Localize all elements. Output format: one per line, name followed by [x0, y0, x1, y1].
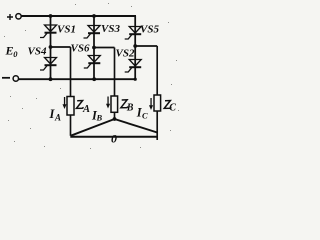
- node top rail / VS1: [49, 14, 53, 18]
- arrow current IC: [149, 98, 153, 110]
- svg-text:VS1: VS1: [57, 24, 76, 36]
- svg-text:C: C: [142, 111, 148, 121]
- svg-text:E: E: [5, 44, 14, 58]
- svg-text:0: 0: [111, 132, 117, 146]
- label zB: [121, 100, 128, 108]
- wire bottom rail: [19, 78, 136, 80]
- node VS2 bottom rail: [134, 78, 137, 81]
- node VS6 bottom rail: [92, 77, 96, 81]
- wire branch A down: [70, 47, 72, 97]
- svg-text:A: A: [82, 104, 90, 115]
- node top rail / VS3: [92, 14, 96, 18]
- arrow current IB: [106, 97, 110, 109]
- node neutral apex: [113, 117, 117, 121]
- load impedance zC: [154, 95, 161, 111]
- svg-text:VS2: VS2: [116, 48, 135, 60]
- load impedance zA: [67, 97, 74, 116]
- svg-text:A: A: [54, 113, 61, 123]
- wire column3 phase C leg: [134, 16, 136, 79]
- wire below zC: [156, 111, 158, 140]
- wire neutral right slant: [115, 119, 158, 133]
- thyristor VS4: [40, 58, 57, 71]
- load impedance zB: [111, 96, 118, 112]
- svg-text:B: B: [126, 103, 134, 114]
- svg-text:VS6: VS6: [71, 43, 90, 55]
- wire top rail: [21, 15, 136, 17]
- wire node B to branch B: [94, 47, 115, 49]
- noise speckles: [4, 3, 179, 149]
- svg-text:0: 0: [13, 49, 18, 59]
- terminal circle negative: [13, 76, 18, 81]
- arrow current IA: [63, 97, 67, 109]
- svg-text:VS5: VS5: [140, 24, 159, 36]
- node B: [92, 46, 96, 50]
- plus sign of source E0: [7, 14, 13, 20]
- node A: [49, 45, 53, 49]
- thyristor VS5: [125, 27, 142, 40]
- svg-text:VS4: VS4: [28, 46, 47, 58]
- minus sign of source E0: [2, 77, 10, 79]
- wire below zB to neutral node: [114, 112, 116, 119]
- label zC: [164, 101, 171, 109]
- node C: [133, 44, 137, 48]
- terminal circle positive: [16, 14, 21, 19]
- node VS4 bottom rail: [49, 77, 53, 81]
- wire branch B down: [114, 48, 116, 97]
- svg-text:B: B: [96, 112, 103, 122]
- wire node C to branch C: [135, 45, 157, 47]
- wire column2 phase B leg: [93, 16, 95, 79]
- wire neutral base: [70, 136, 157, 138]
- thyristor VS3: [84, 26, 101, 39]
- wire below zA: [70, 115, 72, 136]
- wire neutral left slant: [71, 119, 115, 136]
- thyristor VS1: [40, 25, 57, 38]
- svg-text:C: C: [169, 103, 176, 114]
- wire column1 phase A leg: [50, 16, 52, 79]
- wire node A to branch A: [51, 46, 71, 48]
- svg-text:VS3: VS3: [101, 23, 120, 35]
- thyristor VS2: [125, 60, 142, 73]
- wire branch C down: [156, 46, 158, 95]
- label zA: [76, 101, 83, 109]
- thyristor VS6: [84, 56, 101, 69]
